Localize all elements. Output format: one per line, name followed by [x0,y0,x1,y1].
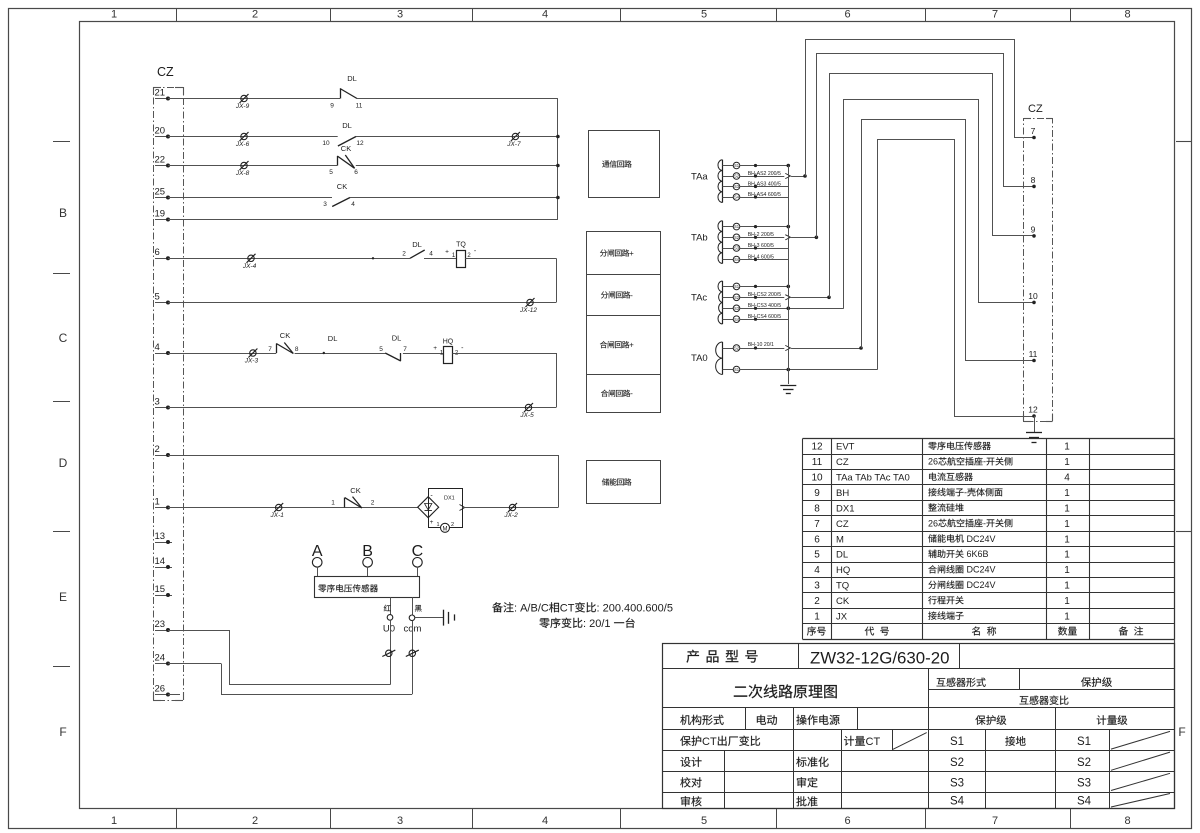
wire row25 right [350,197,558,199]
svg-text:13: 13 [155,531,166,542]
svg-text:8: 8 [1124,9,1130,21]
svg-text:2: 2 [155,444,160,455]
title 二次线路原理图 [734,687,747,697]
wire TAc-S1 to bus [740,286,789,288]
svg-text:DX1: DX1 [444,495,455,501]
node row4 small [323,352,325,354]
phase A input [312,558,322,568]
title 接地 [1005,736,1015,746]
wire row6 mid [424,258,457,260]
parts table header [807,626,816,635]
terminal CZ-13 [155,542,172,544]
svg-text:6: 6 [844,9,850,21]
svg-text:2: 2 [252,9,258,21]
svg-text:2: 2 [402,251,406,258]
svg-text::: : [514,603,517,615]
svg-text:JX-6: JX-6 [235,141,250,148]
svg-text:S2: S2 [734,174,740,179]
svg-text:200.400.600/5: 200.400.600/5 [603,603,673,615]
svg-text:1: 1 [111,815,117,827]
svg-text:JX-1: JX-1 [270,512,285,519]
wire TAa-S1 to bus [740,165,789,167]
wire row23 [168,630,229,632]
wire row25 left [168,197,332,199]
wire com to earth [415,617,443,619]
svg-text::: : [597,603,600,615]
svg-text:25: 25 [155,186,166,197]
svg-text:S1: S1 [1077,736,1091,748]
svg-text:EVT: EVT [836,442,855,453]
svg-text:S1: S1 [734,367,740,372]
wire 23 vertical [229,630,231,685]
svg-text:11: 11 [1029,349,1038,359]
svg-text:BH-CS2 200/5: BH-CS2 200/5 [748,292,782,298]
svg-text:9: 9 [814,488,820,499]
terminal CZ-10 [1032,301,1036,305]
svg-text:DL: DL [342,121,352,130]
svg-text:+: + [433,345,437,352]
svg-text:M: M [443,527,448,533]
svg-text:8: 8 [814,503,820,514]
terminal CZ-25 [155,197,168,199]
title 保护级 mid [975,715,985,725]
wire row6 right [465,258,556,260]
wire riser to CZ-9 [830,74,1035,298]
title 互感器形式 [937,678,946,686]
ground CT bus [780,385,796,387]
travel switch CK 1-2 [344,498,346,508]
svg-text:U0: U0 [383,624,395,635]
wire U0 horizontal [229,684,390,686]
wire row6 left [168,258,410,260]
svg-text:2: 2 [814,596,820,607]
terminal CZ-21 [155,98,168,100]
wire riser to CZ-12 [878,140,1035,417]
box trip circuit+ 分闸回路+ [587,232,661,275]
svg-text:S4: S4 [734,195,740,200]
terminal CZ-12 [1032,414,1036,418]
svg-text:S1: S1 [734,284,740,289]
svg-text:1: 1 [1064,581,1070,592]
svg-text:1: 1 [1064,503,1070,514]
wire row4 mid2 [403,353,444,355]
svg-text:4: 4 [429,251,433,258]
terminal CZ-9 [1032,234,1036,238]
svg-text:CZ: CZ [836,457,849,468]
svg-text:JX: JX [836,612,848,623]
wire TAb-S4 to bus [740,259,789,261]
svg-text:TAb: TAb [691,233,708,244]
terminal CZ-15 [155,595,172,597]
svg-text:S2: S2 [1077,757,1091,769]
svg-text:12: 12 [356,140,364,147]
svg-text:DX1: DX1 [836,503,854,514]
svg-text:S3: S3 [950,778,964,790]
svg-text:DL: DL [347,74,357,83]
wire row1 left [168,507,418,509]
svg-text:E: E [59,590,67,604]
wire riser to CZ-11 [862,120,1035,361]
terminal CZ-22 [155,165,168,167]
svg-text:TQ: TQ [456,242,466,249]
title block grid [663,644,1175,809]
svg-text:5: 5 [814,550,820,561]
wire row1 right [462,507,558,509]
diagonal cell row D mid [893,733,927,750]
svg-text:1: 1 [1064,612,1070,623]
svg-text:M: M [836,534,844,545]
bottom ruler ticks [176,809,178,829]
svg-text:6: 6 [814,534,820,545]
wire com down [412,621,414,695]
wire row26 stub [168,694,180,696]
svg-text:20: 20 [155,125,166,136]
title 审定 [797,777,806,787]
svg-text:CK: CK [836,596,850,607]
title 计量CT [844,736,854,746]
wire TAa-S4 to bus [740,197,789,199]
svg-text:JX-2: JX-2 [503,512,518,519]
terminal JX-3 [250,350,256,356]
hop TAc-S2 over bus [785,295,790,300]
terminal CZ-7 [1032,136,1036,140]
svg-text:S1: S1 [734,224,740,229]
svg-text::: : [583,618,586,630]
svg-text:2: 2 [371,500,375,507]
svg-text:CK: CK [280,331,290,340]
terminal CZ-4 [155,353,168,355]
wire row19 [168,219,558,221]
title 互感器变比 [1020,696,1029,704]
svg-text:JX-4: JX-4 [242,263,257,270]
svg-text:JX-5: JX-5 [519,412,534,419]
aux switch DL 2-4 [410,250,425,258]
svg-text:3: 3 [814,581,820,592]
svg-text:CK: CK [350,486,360,495]
svg-text:CK: CK [337,182,347,191]
aux switch DL 10-12 [338,137,356,147]
svg-text:14: 14 [155,556,166,567]
svg-text:C: C [59,331,68,345]
svg-text:JX-8: JX-8 [235,170,250,177]
title 电动 [757,715,766,725]
terminal CZ-5 [155,302,168,304]
terminal CZ-24 [155,663,168,665]
title 计量级 [1097,715,1107,725]
wire row24 [168,663,221,665]
hop TAa-S2 over bus [785,173,790,178]
svg-text:A/B/C: A/B/C [520,603,549,615]
wire row4 mid1 [295,353,386,355]
svg-text:1: 1 [331,500,335,507]
svg-text:1: 1 [814,612,820,623]
svg-text:ZW32-12G/630-20: ZW32-12G/630-20 [810,650,950,668]
svg-text:8: 8 [295,346,299,353]
svg-text:19: 19 [155,208,166,219]
wire TA0-S2 to riser11 [740,348,785,350]
svg-text:BH-10 20/1: BH-10 20/1 [748,342,774,348]
svg-text:6: 6 [844,815,850,827]
label black 黑 [415,605,422,612]
svg-text:CT: CT [702,736,717,748]
top ruler ticks [176,8,178,21]
wire row20 right [356,136,515,138]
title 标准化 [796,757,806,767]
terminal JX-8 [241,162,247,168]
svg-text:CZ: CZ [157,65,174,79]
earth at com [443,610,445,626]
svg-text:JX-7: JX-7 [506,141,521,148]
svg-text:S4: S4 [734,317,740,322]
terminal CZ-2 [155,455,168,457]
wire row22 left [168,165,337,167]
svg-text:26: 26 [928,518,938,528]
wire row4 right [453,353,557,355]
svg-text:-: - [983,518,986,528]
label red 红 [384,605,391,611]
svg-text:26: 26 [928,457,938,467]
terminal JX com [409,650,415,656]
wire row22 right [356,165,558,167]
svg-text:F: F [59,725,66,739]
svg-text:7: 7 [814,519,820,530]
svg-text:B: B [59,206,67,220]
svg-text:F: F [1178,725,1185,739]
svg-text:3: 3 [155,396,160,407]
svg-text:+: + [445,249,449,256]
terminal CZ-23 [155,630,168,632]
terminal CZ-20 [155,136,168,138]
svg-text:7: 7 [268,346,272,353]
svg-text:S1: S1 [734,163,740,168]
svg-text:1: 1 [1064,519,1070,530]
svg-text:8: 8 [1031,175,1036,185]
svg-text:1: 1 [1064,565,1070,576]
svg-text:3: 3 [323,201,327,208]
svg-text:6K6B: 6K6B [967,549,989,559]
svg-text:7: 7 [992,9,998,21]
svg-text:5: 5 [701,9,707,21]
svg-text:5: 5 [329,169,333,176]
phase B input [363,558,373,568]
svg-text:-: - [964,488,967,498]
svg-text:BH-CS3 400/5: BH-CS3 400/5 [748,303,782,309]
terminal JX-6 [241,133,247,139]
hop TA0-S2 over bus [785,345,790,350]
svg-text:24: 24 [155,652,166,663]
wire TAc-S3 to riser10 [740,308,844,310]
svg-text:9: 9 [1031,224,1036,234]
title 批准 [796,796,806,806]
svg-text:1: 1 [436,522,439,528]
svg-text:1: 1 [1064,488,1070,499]
wire row1 mid [363,507,418,509]
svg-text:4: 4 [542,815,548,827]
svg-text:B: B [362,543,373,560]
aux switch DL 9-11 [340,89,342,99]
wire TAc-S2 to riser [740,297,785,299]
wire loop row6-row5 [556,258,558,302]
terminal CZ-8 [1032,185,1036,189]
svg-text:DL: DL [392,334,402,343]
node row22-bus [556,164,560,168]
terminal JX-12 [527,299,533,305]
sensor EVT 零序电压传感器 [315,577,420,598]
box communication circuit 通信回路 [589,131,660,198]
svg-text:DC24V: DC24V [967,534,996,544]
svg-text:BH-3 600/5: BH-3 600/5 [748,243,774,249]
wire row4 left [168,353,276,355]
svg-text:7: 7 [403,346,407,353]
wire TAb-S1 to bus [740,226,789,228]
wire U0 down [390,620,392,685]
terminal CZ-1 [155,507,168,509]
svg-text:1: 1 [1064,550,1070,561]
box close circuit+ 合闸回路+ [587,316,661,375]
terminal com [409,615,415,621]
wire row21 right [357,98,558,100]
wire CZ-12 ground stem [1034,416,1036,432]
svg-text:6: 6 [155,247,160,258]
svg-text:S4: S4 [950,796,965,808]
terminal CZ-6 [155,258,168,260]
svg-text:TAc: TAc [691,293,707,304]
box close circuit- 合闸回路- [587,375,661,413]
trip coil TQ [457,251,466,268]
svg-text:DC24V: DC24V [967,565,996,575]
svg-text:S2: S2 [950,757,964,769]
aux switch DL 5-7 [385,353,401,361]
svg-text:DL: DL [836,550,848,561]
svg-text:D: D [59,456,68,470]
wire EVT U0 stub [390,597,392,614]
diagonal cells right column [1111,731,1170,749]
wire riser to CZ-8 [817,54,1035,238]
svg-text:26: 26 [155,683,166,694]
terminal JX-4 [248,255,254,261]
svg-text:1: 1 [111,9,117,21]
svg-text:10: 10 [322,140,330,147]
wire loop row4-row3 [556,353,558,408]
node row6 small [372,257,374,259]
wire TAa-S2 to riser [740,176,785,178]
svg-text:7: 7 [1031,126,1036,136]
svg-text:15: 15 [155,584,166,595]
travel switch CK 3-4 [332,198,350,207]
svg-text:BH: BH [836,488,849,499]
svg-text:11: 11 [812,457,823,468]
svg-text:CK: CK [341,144,351,153]
svg-text:BH-CS4 600/5: BH-CS4 600/5 [748,314,782,320]
wire bus right of rows 21-19 [557,99,559,220]
title 机构形式 [680,715,690,725]
svg-text:BH-AS2 200/5: BH-AS2 200/5 [748,171,781,177]
terminal U0 [387,615,393,621]
svg-text:C: C [412,543,424,560]
svg-text:BH-4 600/5: BH-4 600/5 [748,254,774,260]
wire TAa-S3 to bus [740,186,789,188]
svg-text:S3: S3 [734,184,740,189]
svg-text:4: 4 [351,201,355,208]
wire TAc-S4 to bus [740,319,789,321]
svg-text:11: 11 [356,103,363,110]
wire row20 right2 [515,136,558,138]
svg-text:CZ: CZ [1028,103,1043,115]
terminal JX U0 [386,650,392,656]
svg-text:TA0: TA0 [691,353,708,364]
svg-text:HQ: HQ [443,339,454,346]
terminal JX-7 [512,133,518,139]
terminal JX-1 [276,504,282,510]
svg-text:S4: S4 [734,257,740,262]
svg-text:DL: DL [412,240,422,249]
svg-text:1: 1 [155,496,160,507]
wire row20 left [168,136,338,138]
box trip circuit- 分闸回路- [587,275,661,316]
svg-text:5: 5 [379,346,383,353]
svg-text:A: A [312,543,323,560]
note ratio line2 [539,618,549,628]
svg-text:S4: S4 [1077,796,1092,808]
terminal JX-5 [525,404,531,410]
svg-text:TQ: TQ [836,581,849,592]
hop TAb-S2 over bus [785,235,790,240]
connector CZ left dash-dot box [154,88,184,701]
right edge row ticks [1176,141,1191,143]
wire riser to CZ-10 [844,100,1035,309]
svg-text:7: 7 [992,815,998,827]
svg-text:S2: S2 [734,346,740,351]
box energy storage circuit 储能回路 [587,461,661,504]
svg-text:-: - [983,457,986,467]
ground CZ-12 [1026,432,1042,434]
svg-text:CZ: CZ [836,519,849,530]
node row25-bus [556,196,560,200]
title 保护级 top [1081,677,1091,687]
svg-text:5: 5 [155,291,160,302]
title 审核 [681,796,690,806]
wire 24 vertical [221,664,223,695]
svg-text:JX-9: JX-9 [235,103,250,110]
svg-text:+: + [430,519,434,526]
svg-text:20/1: 20/1 [589,618,610,630]
svg-text:4: 4 [542,9,548,21]
svg-text:23: 23 [155,619,166,630]
wire row3 [168,407,556,409]
wire riser to CZ-7 [806,40,1035,177]
wire row5 [168,302,556,304]
svg-text:5: 5 [701,815,707,827]
wire row2 [168,455,558,457]
travel switch CK 5-6 [337,156,339,166]
node row20-bus [556,135,560,139]
parts table grid [803,438,1175,440]
svg-text:12: 12 [1028,405,1038,415]
svg-text:1: 1 [1064,534,1070,545]
connector CZ right dash-dot box [1024,119,1053,422]
svg-text:12: 12 [811,442,823,453]
svg-text:1: 1 [1064,457,1070,468]
terminal CZ-14 [155,567,172,569]
svg-text:22: 22 [155,154,166,165]
left edge row ticks [53,141,70,143]
svg-text:BH-AS4 600/5: BH-AS4 600/5 [748,192,781,198]
svg-text:1: 1 [1064,442,1070,453]
wire com horizontal [221,694,412,696]
svg-text:JX-3: JX-3 [244,358,259,365]
svg-text:2: 2 [451,522,454,528]
svg-text:3: 3 [397,9,403,21]
